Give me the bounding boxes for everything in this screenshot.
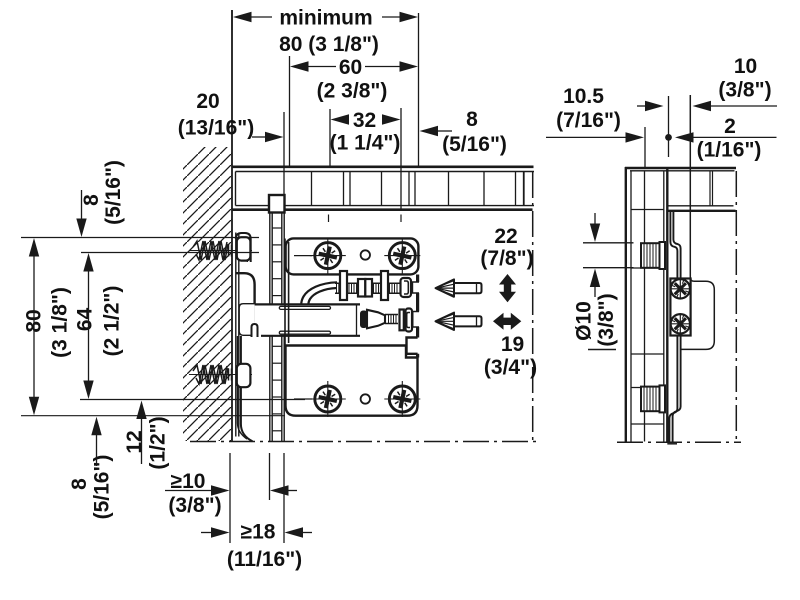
bold up-down arrow (22 height adjust): [499, 274, 516, 302]
svg-text:64: 64: [74, 308, 97, 332]
svg-text:(3/8"): (3/8"): [168, 494, 221, 517]
wall screw top (thread into wall): [189, 241, 252, 260]
svg-text:(5/16"): (5/16"): [102, 160, 125, 225]
recess pocket outline: [681, 95, 714, 349]
cabinet side panel (right view): [625, 167, 736, 442]
hanger strip (right view, bent metal): [667, 211, 680, 444]
small hole top arm: [361, 250, 370, 259]
dim 80 left (rotated): [23, 309, 46, 332]
screw center tick marks: [294, 215, 401, 400]
screw A1 (top left pozi screw): [310, 238, 346, 274]
svg-text:(2 1/2"): (2 1/2"): [101, 286, 124, 357]
dim 8 top left (rotated): [80, 194, 103, 206]
cabinet top panel (left view, cross-section): [232, 108, 534, 210]
euro screw bottom (in side panel): [641, 385, 665, 412]
svg-text:(2 3/8"): (2 3/8"): [317, 80, 388, 103]
dim diameter 10 (rotated): [573, 301, 596, 341]
svg-text:10: 10: [734, 55, 757, 78]
screw A2 (top right pozi screw): [384, 238, 420, 274]
wall plate screw tab top: [237, 237, 251, 260]
screw B2 (bottom right pozi screw): [384, 381, 420, 417]
svg-text:(3/8"): (3/8"): [718, 79, 771, 102]
dim 8 bottom left (rotated): [68, 478, 91, 490]
svg-text:(5/16"): (5/16"): [442, 133, 507, 156]
dash-dot centre line bottom (right view): [617, 441, 741, 443]
depth adjustment screw (lower, on middle arm): [357, 306, 413, 336]
dim minimum 80: [232, 10, 419, 167]
wall plate screw tab bottom: [237, 364, 251, 387]
svg-text:(1 1/4"): (1 1/4"): [330, 132, 401, 155]
back panel hook pocket outline: [239, 304, 254, 336]
wall face line: [231, 10, 233, 442]
screw B1 (bottom left pozi screw): [310, 381, 346, 417]
cabinet top panel (right view going right): [668, 171, 736, 211]
svg-text:≥10: ≥10: [171, 470, 206, 493]
hanger screw housing: [670, 279, 690, 336]
dash-dot centre line right edge (left view): [532, 172, 534, 442]
dash-dot centre line right (right view): [735, 171, 737, 442]
svg-text:12: 12: [123, 430, 146, 453]
dim 12 (rotated): [123, 430, 146, 453]
wall mounting plate strip: [236, 233, 239, 437]
svg-text:80 (3 1/8"): 80 (3 1/8"): [279, 33, 379, 56]
wall screw bottom (thread into wall): [189, 365, 252, 384]
dim 32: [329, 109, 331, 166]
rail hook lip: [252, 324, 258, 337]
mounting rail (vertical, behind cabinet back): [270, 211, 284, 442]
hanger middle arm (white fill over rail): [255, 304, 360, 335]
svg-text:(11/16"): (11/16"): [227, 548, 302, 571]
svg-text:60: 60: [339, 56, 362, 79]
knurled screw head bottom: [668, 312, 692, 336]
svg-text:(1/2"): (1/2"): [147, 416, 170, 469]
small hole bottom arm: [361, 394, 370, 403]
svg-text:(3/8"): (3/8"): [595, 293, 618, 346]
dash-dot centre line bottom (left view): [190, 441, 536, 443]
wall hatch: [183, 147, 232, 441]
svg-text:32: 32: [353, 109, 376, 132]
svg-text:8: 8: [68, 478, 91, 490]
svg-text:Ø10: Ø10: [573, 301, 596, 341]
dim 60: [290, 56, 401, 166]
svg-text:10.5: 10.5: [563, 85, 604, 108]
svg-text:8: 8: [466, 108, 478, 131]
svg-text:20: 20: [196, 90, 219, 113]
svg-text:(3/4"): (3/4"): [484, 356, 537, 379]
reference line top of bracket (80/8 datum): [21, 237, 259, 239]
svg-text:(13/16"): (13/16"): [178, 117, 255, 140]
height adjustment screw (upper rod): [301, 271, 411, 305]
svg-text:(5/16"): (5/16"): [91, 455, 114, 520]
svg-text:22: 22: [494, 225, 517, 248]
knurled screw head top: [668, 277, 692, 301]
svg-text:(7/8"): (7/8"): [480, 247, 533, 270]
bold left-right arrow (19 depth adjust): [493, 313, 521, 330]
svg-text:≥18: ≥18: [241, 521, 276, 544]
top fixing arm: [286, 238, 419, 274]
bottom fixing arm: [286, 346, 418, 416]
screwdriver bit 1 (vertical adjust): [436, 279, 482, 296]
reference line bottom screw axis: [80, 399, 305, 401]
bracket housing left wall: [285, 239, 289, 411]
svg-text:minimum: minimum: [279, 7, 372, 30]
bracket right wall with hooks: [407, 275, 420, 358]
euro screw top (in side panel): [641, 242, 665, 269]
svg-text:(7/16"): (7/16"): [556, 109, 621, 132]
hanger rear hook profile: [236, 233, 255, 441]
svg-text:19: 19: [501, 333, 524, 356]
svg-text:2: 2: [724, 115, 736, 138]
svg-text:(3 1/8"): (3 1/8"): [49, 287, 72, 358]
dim 64 left (rotated): [74, 308, 97, 332]
svg-text:8: 8: [80, 194, 103, 206]
mounting rail top tab: [269, 195, 285, 213]
reference line bottom of bracket: [21, 415, 285, 417]
screwdriver bit 2 (horizontal adjust): [436, 313, 482, 330]
svg-text:(1/16"): (1/16"): [697, 139, 762, 162]
reference line top screw axis (64 datum): [81, 252, 259, 254]
